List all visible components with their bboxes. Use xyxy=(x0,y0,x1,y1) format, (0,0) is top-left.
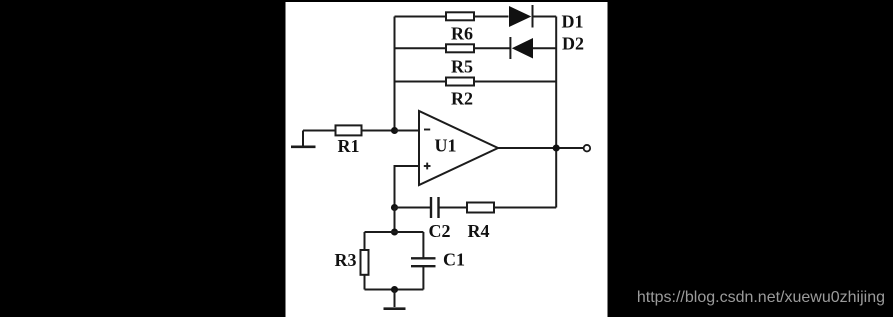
wire R4 to right bus xyxy=(494,207,556,209)
wire third row left (bus to R2) xyxy=(395,81,447,83)
node output junction xyxy=(553,144,560,151)
wire R6 to D1 xyxy=(474,16,509,18)
wire right bus xyxy=(555,17,557,208)
svg-text:R6: R6 xyxy=(451,24,473,44)
svg-text:R4: R4 xyxy=(468,221,490,241)
wire node to ground xyxy=(394,290,396,308)
svg-text:R3: R3 xyxy=(335,250,357,270)
svg-text:D2: D2 xyxy=(562,34,584,54)
resistor R1 xyxy=(336,125,362,156)
node RC network bottom junction xyxy=(391,286,398,293)
wire R2 to right bus xyxy=(474,81,556,83)
svg-text:R1: R1 xyxy=(338,136,360,156)
resistor R6 xyxy=(446,12,474,43)
ground (input) xyxy=(291,131,316,147)
wire R3 to bottom xyxy=(364,275,366,290)
wire D2 to right bus xyxy=(533,47,556,49)
op-amp U1 xyxy=(419,111,498,185)
diode D1 xyxy=(509,5,584,32)
resistor R2 xyxy=(446,78,474,109)
wire node to op-amp minus input xyxy=(395,130,420,132)
svg-text:C2: C2 xyxy=(429,221,451,241)
resistor R4 xyxy=(467,203,494,242)
node RC network top junction xyxy=(391,228,398,235)
wire C1 to bottom xyxy=(422,266,424,289)
node inverting input junction xyxy=(391,127,398,134)
diode D2 xyxy=(510,34,584,60)
wire RC network bottom xyxy=(365,289,424,291)
node C2 branch junction xyxy=(391,204,398,211)
svg-text:U1: U1 xyxy=(435,136,457,156)
resistor R5 xyxy=(446,44,474,76)
wire left branch down to R3 xyxy=(364,232,366,250)
wire ground to R1 xyxy=(303,130,336,132)
capacitor C2 xyxy=(429,197,451,241)
resistor R3 xyxy=(335,250,369,275)
wire node to RC network xyxy=(394,208,396,233)
svg-text:R5: R5 xyxy=(451,56,473,76)
wire left feedback bus xyxy=(394,17,396,131)
wire right branch down to C1 xyxy=(422,232,424,258)
wire plus input to lower bus xyxy=(395,166,420,208)
svg-text:C1: C1 xyxy=(443,250,465,270)
svg-text:D1: D1 xyxy=(562,12,584,32)
wire R5 to D2 xyxy=(474,47,510,49)
wire op-amp output xyxy=(498,147,584,149)
capacitor C1 xyxy=(411,250,465,270)
wire RC network top xyxy=(365,231,424,233)
svg-text:R2: R2 xyxy=(451,89,473,109)
wire C2 to R4 xyxy=(439,207,468,209)
wire R1 to inverting node xyxy=(362,130,395,132)
wire D1 to right bus xyxy=(533,16,557,18)
wire node to C2 xyxy=(395,207,432,209)
watermark xyxy=(637,288,885,307)
output terminal xyxy=(584,145,591,152)
schematic background panel xyxy=(286,2,608,317)
wire top row left (bus to R6) xyxy=(395,16,447,18)
wire second row left (bus to R5) xyxy=(395,47,447,49)
ground (bottom) xyxy=(384,307,406,310)
